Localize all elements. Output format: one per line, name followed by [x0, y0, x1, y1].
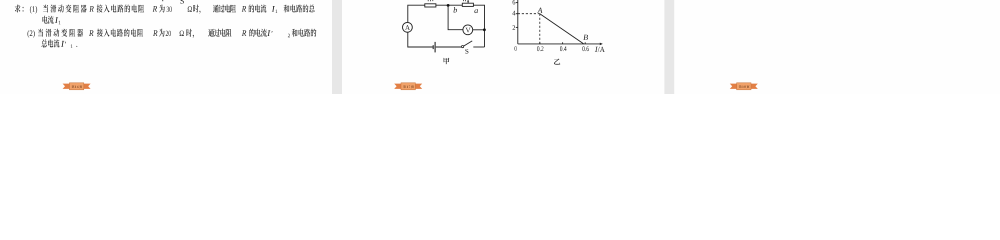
problem text line 4	[41, 39, 77, 48]
junction node b (dot)	[447, 4, 450, 7]
page separator bar 2	[664, 0, 674, 94]
x-axis unit label I/A	[595, 47, 605, 52]
rheostat R2 (box)	[462, 3, 473, 6]
graph x-axis	[518, 43, 601, 45]
battery cell: long plate	[434, 42, 436, 53]
dashed guide line (y=4 to point A)	[518, 13, 540, 15]
x label 0.2	[537, 46, 543, 51]
x label 0.6	[582, 46, 589, 51]
point label A	[537, 8, 542, 13]
y-axis tick 4	[516, 13, 518, 15]
battery cell: short plate	[432, 45, 434, 49]
wire: battery to switch	[436, 46, 462, 48]
x label 0	[515, 46, 517, 51]
U-I characteristic line A to B	[540, 14, 584, 44]
y-axis tick 6	[516, 2, 518, 4]
graph y-axis (top cut off)	[517, 0, 519, 44]
voltmeter letter V	[466, 28, 471, 33]
cut-off text S from line above (top edge)	[180, 0, 184, 4]
resistor R1 (box)	[425, 4, 436, 7]
label remnant above R1 (cut off)	[428, 0, 433, 1]
rheostat slider arrow (cut at top)	[467, 0, 469, 2]
wire: voltmeter to right side	[473, 29, 485, 31]
y label 2	[513, 25, 516, 30]
label remnant above R2 (cut off)	[463, 0, 465, 1]
wire: R1 to junction b	[436, 4, 462, 6]
point label B	[583, 35, 588, 40]
switch label S	[465, 49, 468, 54]
problem text line 2	[43, 16, 61, 25]
x-axis tick 0.4	[562, 42, 564, 44]
voltmeter V (meter circle)	[463, 25, 473, 35]
junction node (voltmeter branch to right wire)	[483, 28, 486, 31]
label a	[474, 9, 478, 13]
dashed guide line (point A down to x-axis)	[539, 14, 541, 44]
y label 4	[512, 11, 515, 16]
x-axis arrowhead	[600, 43, 603, 46]
x-axis tick 0.6	[584, 42, 586, 44]
ammeter letter A	[405, 25, 410, 30]
x-axis tick 0.2	[539, 42, 541, 44]
wire: junction b down to voltmeter branch	[448, 7, 463, 30]
page ribbon 3 (第18页)	[730, 84, 758, 89]
y-axis tick 2	[516, 26, 518, 28]
figure label 乙	[554, 59, 560, 65]
switch S pivot (open circle)	[462, 46, 464, 48]
page separator bar 1	[332, 0, 342, 94]
x label 0.4	[560, 46, 567, 51]
y label 6	[513, 0, 516, 4]
wire: circuit left side (top corner to ammeter)	[408, 5, 425, 22]
wire: circuit left side (ammeter to bottom corner)	[408, 32, 433, 47]
switch S blade (open)	[464, 41, 473, 46]
problem text line 1	[15, 5, 315, 14]
figure label 甲	[444, 58, 450, 64]
page ribbon 2 (第17页)	[394, 84, 422, 89]
cut-off glyph remnant	[162, 0, 163, 1]
page ribbon 1 (第16页)	[63, 84, 91, 89]
wire: R2 to top-right corner, down right side	[473, 5, 484, 47]
problem text line 3	[28, 29, 317, 38]
label b	[454, 7, 458, 13]
wire: switch to bottom-right corner	[473, 46, 484, 48]
ammeter A (meter circle)	[403, 22, 413, 32]
